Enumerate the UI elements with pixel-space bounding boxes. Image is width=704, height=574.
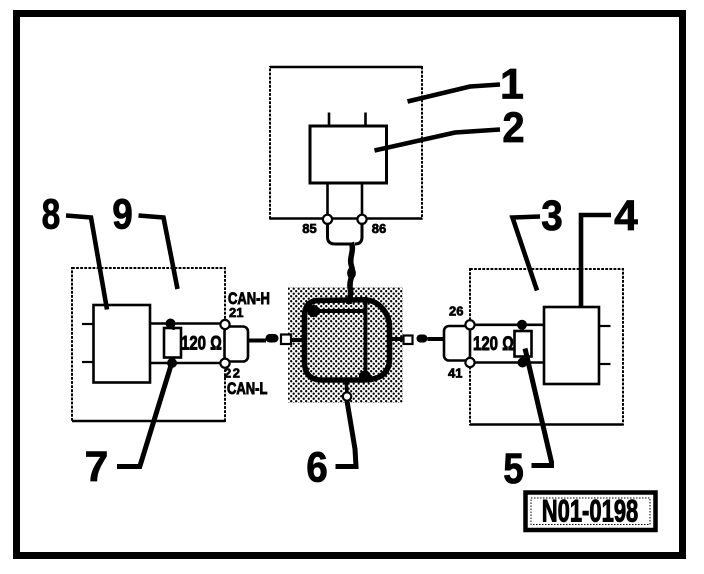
wire twisted down to joint	[349, 243, 352, 305]
joint inner wire vertical	[364, 300, 368, 377]
item number 1	[500, 61, 524, 109]
relay box J... (box 1, dotted)	[270, 67, 422, 219]
svg-text:N01-0198: N01-0198	[542, 492, 639, 528]
inner unit box 8	[94, 305, 151, 383]
leader 2	[375, 130, 501, 151]
item number 7	[85, 443, 109, 491]
svg-text:1: 1	[500, 61, 524, 109]
leader 9	[139, 216, 178, 290]
wire CAN-L left	[150, 362, 220, 365]
drawing number box	[526, 493, 656, 531]
junction dot right top	[517, 320, 527, 330]
svg-text:5: 5	[503, 445, 524, 492]
item number 6	[306, 443, 328, 491]
connector housing right of box3	[444, 326, 470, 361]
box 4 right ticks	[599, 325, 611, 327]
box3 bottom edge	[470, 423, 623, 426]
wire right rect to connector	[428, 337, 445, 341]
wiring joint blob (item 6)	[305, 300, 390, 380]
leader 4	[581, 215, 611, 308]
box1 top edge	[270, 66, 422, 68]
left bus wire into joint	[291, 338, 306, 342]
joint solder dot bottom	[359, 371, 371, 383]
pin circle CAN-H left	[220, 320, 229, 329]
box1 bottom edge	[270, 217, 422, 220]
value 120 ohm left	[181, 332, 222, 354]
left connector square	[281, 335, 291, 345]
svg-text:41: 41	[448, 366, 462, 381]
relay top ticks	[328, 113, 331, 127]
right connector square	[404, 336, 413, 345]
junction dot left bottom	[167, 358, 177, 368]
leader 6	[336, 401, 357, 467]
item number 9	[112, 191, 133, 238]
leader 5	[525, 349, 552, 466]
leader 1	[408, 85, 501, 102]
junction dot right bottom	[518, 358, 528, 368]
resistor R 120 ohm right (item 5)	[515, 331, 532, 357]
box9 bottom edge	[72, 420, 225, 423]
junction dot left top	[166, 319, 176, 329]
wire relay pin 86	[361, 183, 364, 215]
connector housing left of box9	[225, 327, 249, 362]
svg-text:9: 9	[112, 191, 133, 238]
wire left rect to connector	[248, 339, 266, 343]
svg-text:86: 86	[372, 221, 386, 236]
joint bottom stub	[346, 380, 347, 393]
svg-text:CAN-L: CAN-L	[227, 379, 267, 398]
svg-text:120 Ω: 120 Ω	[473, 332, 514, 354]
svg-text:120 Ω: 120 Ω	[181, 332, 222, 354]
svg-text:2: 2	[502, 103, 524, 152]
svg-text:4: 4	[614, 192, 638, 240]
left connector oval	[266, 334, 279, 343]
svg-text:3: 3	[541, 191, 563, 239]
svg-text:26: 26	[449, 304, 463, 319]
svg-text:22: 22	[224, 366, 241, 381]
joint bottom terminal circle	[343, 392, 351, 400]
right bus wire into joint	[389, 337, 404, 341]
item number 4	[614, 192, 638, 240]
wire CAN-H left	[150, 322, 220, 325]
value 120 ohm right	[473, 332, 514, 354]
leader 3	[513, 217, 541, 291]
joint solder dot top-left	[308, 305, 320, 317]
item number 3	[541, 191, 563, 239]
item number 5	[503, 445, 524, 492]
relay (box 2)	[310, 126, 387, 183]
pin circle right bottom	[465, 358, 474, 367]
svg-text:85: 85	[302, 221, 316, 236]
drawing number text N01-0198	[542, 492, 639, 528]
control unit box 9 (dotted)	[72, 268, 225, 421]
right connector oval	[417, 335, 428, 343]
resistor R 120 ohm left (item 7)	[164, 328, 181, 358]
wire CAN-L right	[475, 361, 544, 364]
wire U-join below relay	[328, 224, 363, 244]
inner unit box 4	[544, 307, 599, 384]
stipple shading around joint	[288, 287, 403, 403]
terminal circle 86	[357, 215, 366, 224]
wire relay pin 85	[326, 183, 329, 215]
item number 2	[502, 103, 524, 152]
svg-text:8: 8	[42, 191, 61, 239]
box 8 left ticks	[82, 323, 94, 325]
svg-text:6: 6	[306, 443, 328, 491]
joint inner wire horizontal	[313, 309, 366, 313]
pin circle right top	[465, 320, 474, 329]
item number 8	[42, 191, 61, 239]
svg-text:21: 21	[229, 305, 243, 320]
leader 7	[117, 361, 173, 467]
wire CAN-H right	[475, 323, 544, 326]
label CAN-H	[228, 289, 270, 308]
control unit box 3 (dotted)	[470, 269, 623, 425]
terminal circle 85	[323, 215, 332, 224]
pin circle CAN-L left	[220, 359, 229, 368]
svg-text:7: 7	[85, 443, 109, 491]
leader 8	[66, 216, 107, 310]
label CAN-L	[227, 379, 267, 398]
